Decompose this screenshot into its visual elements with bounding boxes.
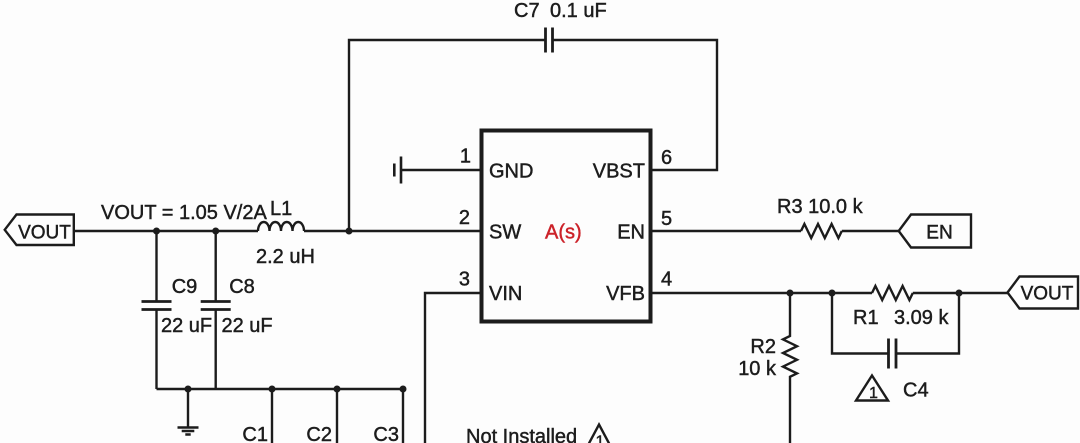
wire: L1 to SW pin 2 — [304, 230, 480, 232]
wire: C7 right plate across and down to VBST pin 6 — [553, 40, 718, 170]
svg-text:C3: C3 — [373, 424, 399, 443]
wire: ground bus at bottom — [157, 388, 404, 390]
warning triangle 1 for C4 — [856, 376, 888, 401]
svg-text:R3 10.0 k: R3 10.0 k — [777, 196, 864, 218]
svg-text:EN: EN — [617, 222, 645, 244]
svg-text:C2: C2 — [306, 424, 332, 443]
svg-text:4: 4 — [661, 269, 672, 291]
terminal VOUT (right) — [1008, 277, 1079, 309]
capacitor C1 lead — [271, 389, 273, 443]
svg-text:EN: EN — [926, 223, 952, 244]
svg-text:2.2 uH: 2.2 uH — [256, 246, 315, 268]
svg-text:VBST: VBST — [593, 161, 645, 183]
svg-text:GND: GND — [489, 161, 533, 183]
capacitor C2 lead — [336, 389, 338, 443]
svg-text:VIN: VIN — [489, 283, 522, 305]
svg-text:SW: SW — [489, 222, 521, 244]
junction at C9 / VOUT rail — [153, 228, 160, 235]
capacitor C4 branch (parallel with R1) — [832, 293, 959, 369]
junction at C4 left on VFB wire — [829, 290, 836, 297]
wire: VFB pin 4 to R1 — [651, 292, 873, 294]
wire: SW node up and across to C7 left plate — [349, 40, 546, 231]
wire: R3 to EN terminal — [842, 230, 899, 232]
svg-text:2: 2 — [459, 207, 470, 229]
resistor R1 — [872, 286, 913, 300]
junction at C7 branch on SW wire — [346, 228, 353, 235]
wire: VOUT terminal to L1 — [74, 230, 258, 232]
chassis ground symbol on pin 1 — [394, 157, 401, 184]
svg-text:0.1 uF: 0.1 uF — [550, 0, 607, 22]
capacitor C7 — [546, 28, 553, 53]
wire: R1 to VOUT terminal (right) — [913, 292, 1008, 294]
svg-text:10 k: 10 k — [738, 358, 777, 380]
inductor L1 — [258, 222, 304, 231]
terminal VOUT (left) — [5, 215, 74, 246]
junction at C1 — [269, 386, 276, 393]
svg-text:6: 6 — [661, 147, 672, 169]
svg-text:VOUT = 1.05 V/2A: VOUT = 1.05 V/2A — [101, 202, 267, 224]
svg-text:VOUT: VOUT — [1021, 284, 1074, 305]
junction at R2 on VFB wire — [787, 290, 794, 297]
IC U1 box — [482, 131, 651, 322]
svg-text:C8: C8 — [229, 276, 255, 298]
junction at C8 / VOUT rail — [212, 228, 219, 235]
svg-text:A(s): A(s) — [545, 222, 582, 244]
svg-text:VOUT: VOUT — [18, 223, 71, 244]
svg-text:L1: L1 — [270, 198, 292, 220]
resistor R2 with leads — [783, 293, 797, 443]
junction at ground symbol — [185, 386, 192, 393]
ground symbol — [178, 389, 199, 435]
svg-text:22 uF: 22 uF — [161, 315, 212, 337]
svg-text:Not Installed: Not Installed — [466, 426, 577, 443]
resistor R3 — [801, 224, 842, 238]
junction at C4 right on VFB wire — [956, 290, 963, 297]
svg-text:R1: R1 — [853, 307, 879, 329]
wire: EN pin 5 to R3 — [651, 230, 802, 232]
terminal EN — [899, 215, 971, 248]
svg-text:C4: C4 — [903, 380, 929, 402]
svg-text:22 uF: 22 uF — [222, 315, 273, 337]
svg-text:3: 3 — [459, 269, 470, 291]
svg-text:1: 1 — [460, 146, 471, 168]
wire: pin 1 GND lead — [401, 169, 480, 171]
svg-text:3.09 k: 3.09 k — [894, 307, 949, 329]
svg-text:1: 1 — [869, 385, 878, 402]
svg-text:1: 1 — [596, 434, 605, 443]
svg-text:C1: C1 — [242, 424, 268, 443]
capacitor C3 lead — [402, 389, 404, 443]
capacitor C8 — [201, 231, 231, 389]
svg-text:C9: C9 — [172, 276, 198, 298]
capacitor C9 — [142, 231, 172, 389]
junction at C2 — [334, 386, 341, 393]
svg-text:VFB: VFB — [606, 283, 645, 305]
svg-text:C7: C7 — [514, 0, 540, 22]
wire: VIN pin 3 lead going down — [425, 293, 480, 443]
svg-text:5: 5 — [661, 208, 672, 230]
junction at C3 — [400, 386, 407, 393]
svg-text:R2: R2 — [750, 336, 776, 358]
warning triangle 1 for Not Installed note — [587, 425, 612, 443]
